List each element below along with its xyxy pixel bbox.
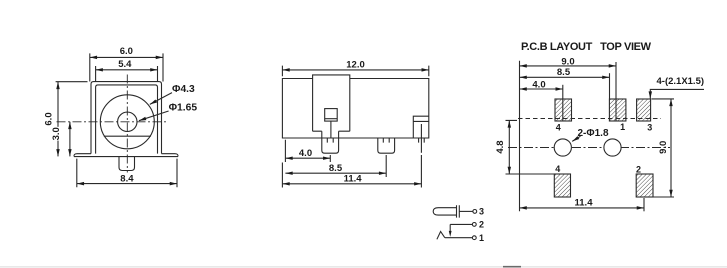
svg-text:9.0: 9.0 (561, 56, 574, 67)
pin2 neck ticks (383, 138, 389, 143)
dim 11.4 line (520, 207, 645, 209)
svg-text:1: 1 (479, 233, 484, 243)
svg-text:4.8: 4.8 (495, 140, 506, 153)
dim 4.0 line (520, 88, 563, 90)
dim 9.0 right extension (615, 62, 617, 121)
pin3 center wire (420, 124, 422, 153)
left reference extension line (519, 61, 521, 212)
svg-text:2: 2 (636, 164, 641, 174)
svg-text:2: 2 (479, 220, 484, 230)
svg-text:4: 4 (556, 123, 561, 133)
dim 5.4 top line (96, 69, 158, 71)
bottom center pin (119, 157, 135, 171)
wire to pin 3 (459, 210, 473, 212)
dim 5.4 extension lines (96, 66, 158, 81)
dim 11.4 extension (643, 198, 645, 211)
pad 1 (609, 99, 626, 121)
left foot flange (74, 154, 91, 157)
dim 4.8 line (508, 120, 510, 174)
svg-text:1: 1 (620, 122, 625, 132)
svg-text:4.0: 4.0 (532, 79, 545, 90)
svg-text:3.0: 3.0 (51, 127, 62, 140)
dashed line through top pads (518, 118, 661, 120)
dim 4.0 extension (562, 85, 564, 121)
horizontal centerline (57, 121, 167, 123)
right foot flange (162, 154, 179, 157)
leader 4.3 (150, 93, 172, 105)
wire pin 1 (445, 237, 473, 239)
dim 8.4 extension lines (77, 159, 177, 188)
svg-text:Φ1.65: Φ1.65 (169, 103, 198, 114)
pin2 below body (378, 138, 395, 153)
dim 9.0 right extensions (652, 99, 675, 197)
bottom plate line (74, 156, 178, 158)
svg-text:Φ4.3: Φ4.3 (172, 84, 195, 95)
dim 8.5 line (285, 172, 386, 174)
dim 9.0 top line (520, 65, 617, 67)
dim 4.0 extension (285, 140, 330, 162)
pad 3 (637, 99, 651, 121)
pad 4 top (555, 99, 572, 121)
leader 4-(2.1X1.5) (650, 89, 704, 98)
barrel step (313, 130, 350, 132)
dim 4.0 line (285, 157, 330, 159)
dim 4.8 extensions (506, 120, 555, 174)
svg-text:3: 3 (647, 123, 652, 133)
big circle (4.3) (100, 95, 154, 149)
label 3.0 background (54, 127, 64, 141)
dim 11.4 extension (282, 155, 421, 188)
dim 6.0 left line (57, 82, 59, 157)
svg-text:11.4: 11.4 (575, 198, 594, 209)
center stem below square (330, 121, 332, 138)
switch arrow head (449, 231, 452, 237)
dim 8.5 line (520, 76, 610, 78)
leader 2-phi1.8 (572, 136, 580, 141)
plug body (433, 208, 457, 215)
svg-text:2-Φ1.8: 2-Φ1.8 (578, 128, 609, 139)
svg-text:4-(2.1X1.5): 4-(2.1X1.5) (657, 76, 705, 87)
pin1 neck ticks (327, 138, 333, 143)
body outer shell (91, 82, 162, 154)
right terminal (413, 116, 429, 138)
svg-text:6.0: 6.0 (44, 112, 55, 125)
body inner shell (96, 85, 158, 154)
pad 2 (636, 174, 653, 197)
svg-text:6.0: 6.0 (120, 46, 133, 57)
body outline (282, 79, 428, 139)
switch drop wire (449, 224, 451, 231)
svg-text:8.5: 8.5 (557, 67, 571, 78)
pin 1 circle (472, 236, 476, 240)
svg-text:5.4: 5.4 (118, 59, 132, 70)
inner square (325, 109, 338, 122)
dark tick on bottom rule (503, 266, 521, 268)
plug flange bars (457, 205, 460, 217)
leader 1.65 (139, 111, 169, 121)
chord line inside circle (104, 135, 151, 137)
pad 4 bottom (554, 174, 570, 197)
svg-text:4.0: 4.0 (299, 148, 312, 159)
svg-text:P.C.B LAYOUT TOP VIEW: P.C.B LAYOUT TOP VIEW (521, 41, 652, 53)
horizontal centerline (508, 147, 670, 149)
wire pin 2 (450, 223, 472, 225)
dim 12.0 extension lines (282, 66, 428, 77)
svg-text:8.5: 8.5 (329, 163, 343, 174)
barrel sides (313, 79, 350, 132)
dim 11.4 line (282, 183, 421, 185)
svg-text:8.4: 8.4 (120, 174, 134, 185)
dim 6.0 top line (90, 56, 163, 58)
pin3 stub (419, 138, 425, 143)
pin 3 circle (473, 210, 477, 214)
hole right 1.8 (604, 139, 621, 156)
faint page bottom rule (0, 266, 727, 268)
svg-text:3: 3 (479, 207, 484, 217)
dim 8.5 extension (385, 155, 387, 177)
inner square double bottom (325, 118, 338, 120)
small circle (1.65) (118, 112, 137, 131)
dim 9.0 right line (670, 99, 672, 197)
hole left 1.8 (554, 139, 571, 156)
dim 8.4 line (77, 183, 177, 185)
pin 2 circle (472, 223, 476, 227)
barrel cap top (313, 75, 350, 79)
vertical centerline (126, 75, 128, 173)
svg-text:9.0: 9.0 (658, 141, 669, 154)
switch contact spring (437, 232, 445, 240)
dim 3.0 left line (69, 122, 71, 157)
dim 6.0 left extension (56, 81, 88, 83)
dim 8.5 extension (609, 73, 611, 98)
pin1 below body (322, 138, 339, 153)
pin1 shaft (322, 131, 339, 138)
svg-text:4: 4 (555, 164, 560, 174)
dim 6.0 top extension lines (90, 53, 163, 81)
dim 12.0 line (282, 69, 428, 71)
svg-text:11.4: 11.4 (344, 174, 363, 185)
svg-text:12.0: 12.0 (346, 59, 365, 70)
